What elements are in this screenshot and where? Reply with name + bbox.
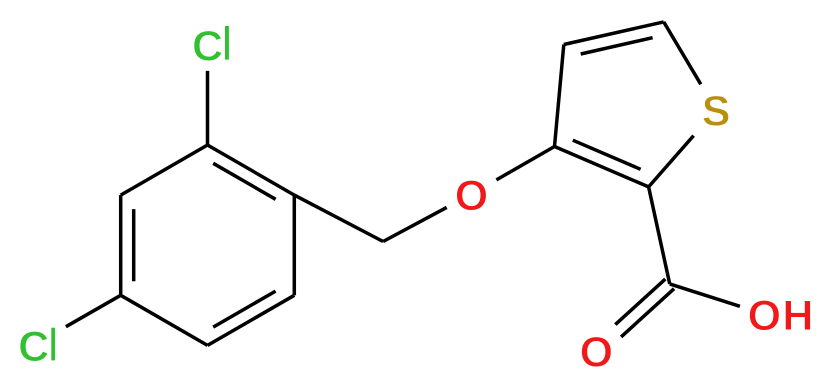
svg-text:H: H bbox=[782, 292, 813, 340]
svg-text:O: O bbox=[580, 329, 613, 377]
svg-text:C: C bbox=[192, 22, 223, 70]
svg-text:S: S bbox=[702, 87, 731, 135]
svg-text:O: O bbox=[455, 172, 488, 220]
svg-text:O: O bbox=[748, 292, 781, 340]
svg-text:C: C bbox=[18, 323, 49, 371]
